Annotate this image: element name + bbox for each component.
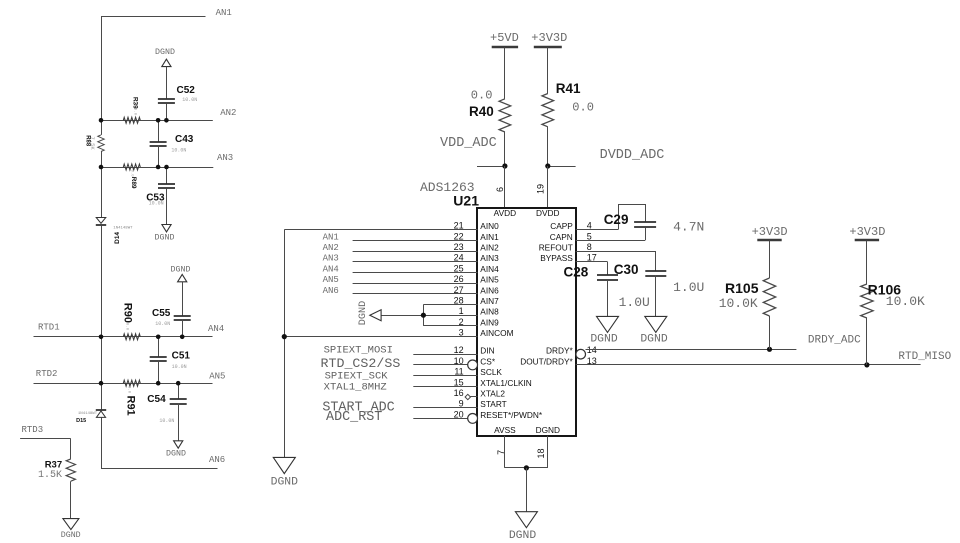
svg-text:0.0: 0.0: [124, 323, 128, 331]
svg-text:0.0: 0.0: [471, 88, 493, 102]
svg-text:8: 8: [587, 242, 592, 252]
svg-text:START: START: [480, 399, 506, 409]
svg-text:XTAL1/CLKIN: XTAL1/CLKIN: [480, 378, 532, 388]
svg-text:20: 20: [454, 409, 464, 419]
svg-text:AVDD: AVDD: [494, 208, 516, 218]
svg-text:BYPASS: BYPASS: [540, 253, 573, 263]
svg-text:10.0N: 10.0N: [155, 321, 170, 327]
svg-text:REFOUT: REFOUT: [539, 243, 573, 253]
svg-text:RTD1: RTD1: [38, 322, 60, 332]
svg-text:R89: R89: [130, 177, 137, 189]
svg-text:+3V3D: +3V3D: [531, 31, 567, 45]
svg-text:R90: R90: [122, 303, 134, 323]
svg-text:21: 21: [454, 221, 464, 231]
svg-text:9: 9: [459, 399, 464, 409]
svg-text:DOUT/DRDY*: DOUT/DRDY*: [520, 356, 573, 366]
svg-text:D14: D14: [114, 232, 121, 244]
svg-text:AVSS: AVSS: [494, 425, 516, 435]
svg-text:AN3: AN3: [217, 153, 233, 163]
svg-text:R91: R91: [125, 396, 137, 416]
svg-text:DGND: DGND: [509, 530, 537, 542]
svg-text:SCLK: SCLK: [480, 367, 502, 377]
svg-text:DGND: DGND: [155, 48, 175, 57]
svg-text:3: 3: [459, 328, 464, 338]
svg-text:VDD_ADC: VDD_ADC: [440, 136, 497, 151]
svg-text:14: 14: [587, 345, 597, 355]
svg-text:AN6: AN6: [209, 455, 225, 465]
svg-text:10.0N: 10.0N: [182, 97, 197, 103]
svg-text:27: 27: [454, 285, 464, 295]
svg-text:AIN1: AIN1: [480, 232, 499, 242]
svg-text:AN2: AN2: [323, 243, 339, 253]
svg-text:1N4148WT: 1N4148WT: [78, 412, 98, 416]
svg-text:DGND: DGND: [640, 334, 668, 346]
svg-text:XTAL1_8MHZ: XTAL1_8MHZ: [324, 382, 387, 394]
svg-text:DGND: DGND: [155, 234, 175, 243]
svg-text:10.0N: 10.0N: [159, 418, 174, 424]
svg-text:C29: C29: [604, 212, 629, 227]
svg-text:10: 10: [454, 356, 464, 366]
svg-text:7.5K: 7.5K: [89, 136, 96, 150]
svg-text:AIN3: AIN3: [480, 253, 499, 263]
svg-text:AIN9: AIN9: [480, 317, 499, 327]
svg-text:C51: C51: [172, 351, 191, 362]
svg-text:AN4: AN4: [323, 264, 339, 274]
svg-text:R105: R105: [725, 280, 759, 296]
svg-text:0.0: 0.0: [133, 108, 137, 116]
svg-text:22: 22: [454, 231, 464, 241]
svg-text:26: 26: [454, 274, 464, 284]
svg-text:DVDD: DVDD: [536, 208, 560, 218]
svg-text:16: 16: [454, 388, 464, 398]
svg-text:12: 12: [454, 345, 464, 355]
svg-text:R41: R41: [556, 81, 581, 96]
svg-text:DGND: DGND: [358, 301, 369, 325]
svg-text:AIN5: AIN5: [480, 275, 499, 285]
svg-text:AN5: AN5: [323, 275, 339, 285]
svg-text:AIN7: AIN7: [480, 296, 499, 306]
svg-text:AN6: AN6: [323, 286, 339, 296]
svg-text:2: 2: [459, 317, 464, 327]
svg-text:4.7N: 4.7N: [673, 220, 704, 235]
svg-text:DGND: DGND: [61, 531, 81, 540]
svg-text:RTD3: RTD3: [22, 425, 44, 435]
svg-text:C52: C52: [177, 85, 196, 96]
svg-text:AN4: AN4: [208, 324, 224, 334]
svg-text:10.0K: 10.0K: [886, 294, 925, 309]
svg-text:U21: U21: [453, 192, 479, 208]
svg-text:AIN4: AIN4: [480, 264, 499, 274]
svg-text:DRDY*: DRDY*: [546, 346, 574, 356]
svg-text:+5VD: +5VD: [490, 31, 519, 45]
svg-text:CS*: CS*: [480, 356, 496, 366]
svg-text:+3V3D: +3V3D: [849, 225, 885, 239]
svg-text:AIN6: AIN6: [480, 285, 499, 295]
svg-text:25: 25: [454, 263, 464, 273]
svg-text:DGND: DGND: [590, 334, 618, 346]
svg-text:15: 15: [454, 377, 464, 387]
svg-text:SPIEXT_MOSI: SPIEXT_MOSI: [324, 345, 393, 357]
svg-text:10.0N: 10.0N: [171, 148, 186, 154]
svg-text:DGND: DGND: [166, 449, 186, 458]
svg-text:ADC_RST: ADC_RST: [326, 410, 382, 425]
svg-text:DGND: DGND: [171, 266, 191, 275]
svg-text:CAPN: CAPN: [550, 232, 573, 242]
svg-text:1.5K: 1.5K: [38, 470, 62, 481]
svg-text:C55: C55: [152, 308, 171, 319]
svg-text:DGND: DGND: [271, 477, 299, 489]
svg-text:AIN8: AIN8: [480, 307, 499, 317]
svg-text:10.0N: 10.0N: [172, 364, 187, 370]
svg-text:28: 28: [454, 296, 464, 306]
svg-text:XTAL2: XTAL2: [480, 389, 505, 399]
svg-text:0.0: 0.0: [129, 169, 133, 177]
svg-text:AN3: AN3: [323, 254, 339, 264]
svg-text:RESET*/PWDN*: RESET*/PWDN*: [480, 410, 543, 420]
svg-text:C43: C43: [175, 134, 194, 145]
svg-text:1: 1: [459, 306, 464, 316]
svg-text:AN1: AN1: [216, 8, 232, 18]
svg-text:10.0N: 10.0N: [149, 201, 164, 207]
svg-text:0.0: 0.0: [127, 386, 131, 394]
svg-text:+3V3D: +3V3D: [752, 225, 788, 239]
svg-text:CAPP: CAPP: [550, 221, 573, 231]
svg-text:AN1: AN1: [323, 232, 339, 242]
svg-text:23: 23: [454, 242, 464, 252]
svg-text:24: 24: [454, 253, 464, 263]
svg-text:AIN0: AIN0: [480, 221, 499, 231]
svg-text:AINCOM: AINCOM: [480, 328, 513, 338]
svg-text:RTD_CS2/SS: RTD_CS2/SS: [321, 356, 401, 371]
svg-text:1N4148WT: 1N4148WT: [113, 226, 133, 230]
svg-text:RTD2: RTD2: [36, 369, 58, 379]
svg-text:19: 19: [536, 184, 546, 194]
svg-text:AN2: AN2: [220, 108, 236, 118]
svg-text:DVDD_ADC: DVDD_ADC: [600, 148, 665, 163]
svg-text:AIN2: AIN2: [480, 243, 499, 253]
svg-text:1.0U: 1.0U: [673, 280, 704, 295]
svg-text:R40: R40: [469, 104, 494, 119]
svg-text:5: 5: [587, 231, 592, 241]
svg-text:DRDY_ADC: DRDY_ADC: [808, 335, 861, 347]
svg-text:0.0: 0.0: [572, 101, 594, 115]
svg-text:D15: D15: [76, 418, 86, 424]
svg-text:10.0K: 10.0K: [719, 296, 758, 311]
svg-text:11: 11: [454, 367, 463, 377]
svg-text:1.0U: 1.0U: [619, 295, 650, 310]
svg-text:RTD_MISO: RTD_MISO: [898, 351, 951, 363]
svg-text:C28: C28: [564, 264, 589, 279]
svg-text:AN5: AN5: [209, 371, 225, 381]
svg-text:DGND: DGND: [536, 425, 560, 435]
svg-text:DIN: DIN: [480, 346, 494, 356]
svg-text:7: 7: [496, 450, 506, 455]
svg-text:18: 18: [536, 448, 546, 458]
svg-text:6: 6: [495, 187, 505, 192]
svg-text:C54: C54: [147, 394, 166, 405]
